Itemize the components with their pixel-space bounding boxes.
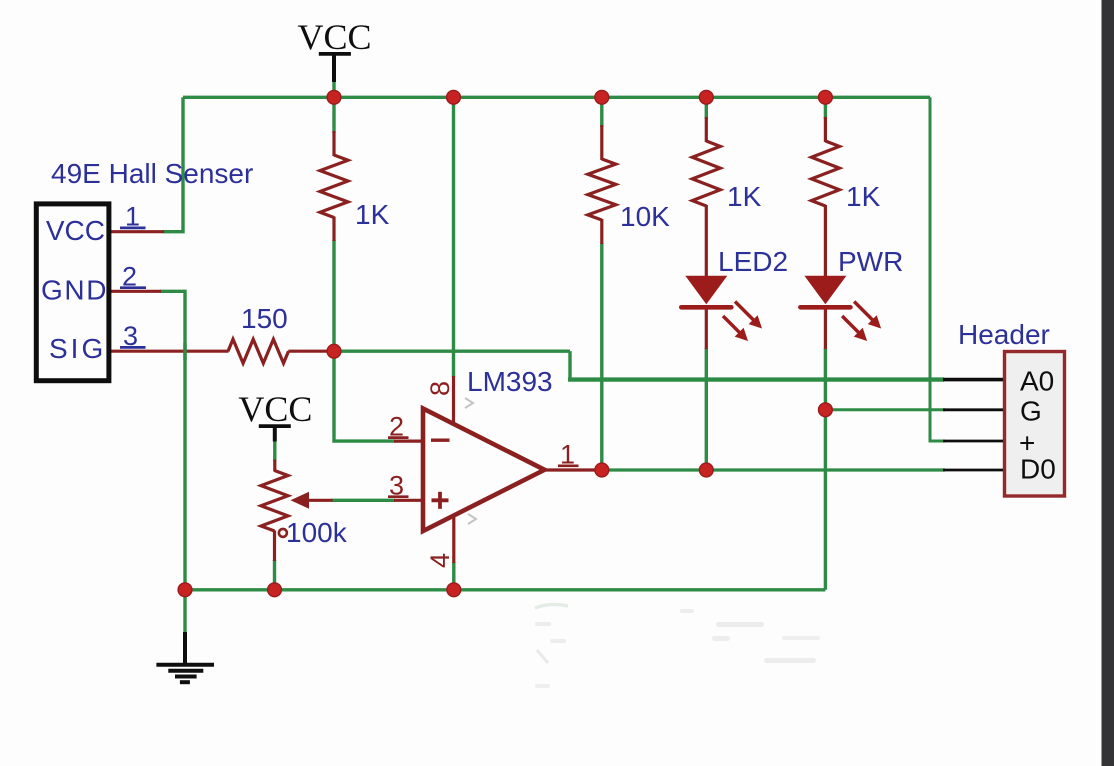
svg-text:10K: 10K bbox=[620, 201, 670, 232]
wire SIG node to op-amp pin2 bbox=[334, 351, 395, 441]
junction dot node output/LED2 bbox=[699, 463, 713, 477]
faint smudge 8 bbox=[782, 636, 820, 640]
wire pot wiper to op-amp pin3 bbox=[331, 499, 395, 502]
svg-text:Header: Header bbox=[958, 319, 1050, 350]
svg-text:4: 4 bbox=[425, 553, 455, 568]
lead op-amp pin3 bbox=[394, 499, 422, 502]
screen edge dark strip bbox=[1102, 0, 1114, 766]
hall pin number 3 bbox=[120, 321, 146, 351]
lead R4 to PWR anode bbox=[824, 205, 827, 277]
LED PWR cathode bar bbox=[800, 305, 850, 310]
svg-text:100k: 100k bbox=[286, 517, 348, 548]
gate mark bottom bbox=[468, 514, 476, 524]
header lead + bbox=[943, 440, 1003, 443]
faint smudge 5 bbox=[680, 609, 694, 613]
faint smudge 9 bbox=[764, 658, 816, 663]
wire output net to header D0 bbox=[602, 468, 945, 471]
junction dot node GND/PWR cathode bbox=[819, 403, 833, 417]
ground bar 1 bbox=[156, 663, 214, 667]
header lead D0 bbox=[943, 469, 1003, 472]
op-amp U1 plus sign bbox=[432, 492, 449, 509]
lead R4 top bbox=[824, 117, 827, 142]
wire op-amp pin4 to ground rail bbox=[452, 562, 455, 590]
lead R1 top bbox=[332, 131, 335, 156]
power symbol VCC top stem bbox=[332, 55, 336, 83]
wire VCC2 stem lower bbox=[273, 440, 276, 461]
resistor R6 150 body bbox=[228, 339, 289, 363]
resistor R4 1K body bbox=[811, 141, 839, 206]
svg-text:LM393: LM393 bbox=[467, 366, 553, 397]
lead op-amp pin2 bbox=[394, 440, 422, 443]
LED LED2 light arrow 2 bbox=[723, 316, 748, 341]
wire hall pin1 to VCC rail bbox=[163, 97, 183, 231]
svg-text:VCC: VCC bbox=[46, 215, 105, 246]
resistor R1 1K body bbox=[320, 155, 348, 218]
lead pot top bbox=[273, 460, 276, 472]
potentiometer R5 wiper arrow bbox=[291, 492, 310, 509]
wire PWR cathode node down to ground rail bbox=[824, 410, 827, 590]
wire R2 bottom to output net bbox=[600, 243, 603, 470]
lead R3 to LED2 anode bbox=[705, 205, 708, 277]
wire R1 bottom to SIG node bbox=[332, 240, 335, 351]
wire LED2 cathode to output net bbox=[705, 348, 708, 470]
wire VCC top rail bbox=[183, 96, 930, 99]
junction dot node GND/pot bbox=[268, 583, 282, 597]
svg-text:VCC: VCC bbox=[238, 389, 312, 429]
svg-text:LED2: LED2 bbox=[718, 246, 788, 277]
faint smudge 7 bbox=[712, 636, 730, 641]
hall pin number 1 bbox=[120, 202, 146, 232]
wire R4 top (rail to PWR 1K) bbox=[824, 97, 827, 119]
ground bar 4 bbox=[180, 680, 190, 684]
header JP1 box bbox=[1005, 352, 1065, 497]
lead hall pin1 bbox=[111, 230, 164, 233]
wire pot bottom to ground rail bbox=[273, 560, 276, 590]
LED LED2 triangle bbox=[685, 276, 727, 304]
wire hall pin2 to ground rail bbox=[160, 291, 185, 634]
svg-text:A0: A0 bbox=[1020, 366, 1054, 397]
wire A0 net (bold) bbox=[568, 377, 944, 381]
wire ground bottom rail bbox=[185, 588, 825, 591]
lead R3 top bbox=[705, 117, 708, 142]
faint smudge 3 bbox=[550, 639, 566, 643]
lead op-amp output pin1 bbox=[545, 468, 602, 471]
svg-text:150: 150 bbox=[241, 303, 288, 334]
svg-text:D0: D0 bbox=[1020, 454, 1056, 485]
wire SIG to A0 corner down bbox=[568, 351, 571, 379]
pin number 1 (op-amp output) bbox=[558, 440, 579, 470]
lead op-amp pin4 bbox=[452, 514, 455, 563]
hall sensor IC1 box bbox=[36, 204, 109, 381]
LED LED2 cathode bar bbox=[681, 305, 731, 310]
junction dot node output/R2 bbox=[595, 463, 609, 477]
junction dot node GND/pin4 bbox=[447, 583, 461, 597]
wire SIG node toward A0 (horizontal) bbox=[334, 350, 570, 353]
junction dot node GND/hall bbox=[178, 583, 192, 597]
potentiometer R5 terminal circle bbox=[279, 529, 287, 537]
power symbol VCC2 bar bbox=[259, 424, 291, 428]
ground bar 2 bbox=[168, 669, 203, 673]
wire hall pin2 vertical over SIG crossing bbox=[183, 343, 186, 360]
wire VCC1 stem lower bbox=[332, 81, 335, 98]
lead hall pin3 to R6 bbox=[111, 350, 229, 353]
junction dot node VCC/R2 bbox=[595, 90, 609, 104]
lead pot wiper shaft bbox=[308, 499, 333, 502]
lead R2 top bbox=[600, 125, 603, 160]
op-amp U1 minus sign bbox=[431, 439, 450, 442]
resistor R2 10K body bbox=[588, 159, 616, 220]
wire R2 top (rail to 10K) bbox=[600, 97, 603, 127]
faint smudge 4 bbox=[537, 650, 548, 663]
lead R1 bottom bbox=[332, 217, 335, 242]
LED PWR light arrow 2 bbox=[842, 316, 867, 341]
svg-text:VCC: VCC bbox=[297, 17, 371, 57]
wire VCC rail drop to header + bbox=[930, 97, 945, 441]
faint smudge 2 bbox=[535, 622, 551, 626]
faint smudge 10 bbox=[535, 684, 550, 688]
pin number 3 (op-amp) bbox=[388, 471, 409, 501]
lead hall pin2 bbox=[111, 290, 161, 293]
lead R2 bottom bbox=[600, 219, 603, 244]
lead R6 to SIG node bbox=[288, 350, 334, 353]
power symbol VCC2 stem bbox=[273, 427, 277, 442]
svg-text:SIG: SIG bbox=[49, 333, 106, 364]
potentiometer R5 body bbox=[261, 471, 288, 532]
LED PWR triangle bbox=[804, 276, 846, 304]
LED LED2 light arrow 1 bbox=[735, 302, 762, 329]
svg-text:GND: GND bbox=[41, 275, 108, 306]
junction dot node VCC/R4 bbox=[819, 90, 833, 104]
ground bar 3 bbox=[175, 675, 197, 679]
wire G net to header bbox=[825, 408, 945, 411]
lead op-amp pin8 bbox=[452, 376, 455, 423]
wire op-amp pin8 to VCC rail bbox=[452, 97, 455, 377]
wire PWR cathode lower bbox=[824, 348, 827, 410]
lead PWR cathode bbox=[824, 308, 827, 349]
wire R3 top (rail to LED2 1K) bbox=[705, 97, 708, 119]
resistor R3 1K body bbox=[692, 141, 720, 206]
hall pin number 2 bbox=[120, 262, 146, 292]
svg-text:G: G bbox=[1020, 396, 1042, 427]
svg-text:1K: 1K bbox=[846, 181, 881, 212]
lead pot bottom bbox=[273, 531, 276, 562]
junction dot node VCC/pin8 bbox=[447, 90, 461, 104]
svg-text:8: 8 bbox=[425, 381, 455, 396]
faint smudge 1 bbox=[535, 604, 568, 608]
gate mark top bbox=[465, 398, 473, 408]
wire R1 top (rail to R1) bbox=[332, 97, 335, 133]
header lead G bbox=[943, 408, 1003, 411]
svg-text:49E Hall Senser: 49E Hall Senser bbox=[51, 158, 253, 189]
LED PWR light arrow 1 bbox=[854, 302, 881, 329]
pin number 2 (op-amp) bbox=[388, 412, 409, 442]
power symbol VCC top bar bbox=[319, 52, 351, 56]
lead LED2 cathode bbox=[705, 308, 708, 349]
faint smudge 6 bbox=[716, 622, 764, 627]
ground stem bbox=[183, 632, 187, 664]
junction dot node VCC/R1 bbox=[327, 90, 341, 104]
svg-text:PWR: PWR bbox=[838, 246, 903, 277]
junction dot node SIG junction bbox=[327, 344, 341, 358]
svg-text:1K: 1K bbox=[727, 181, 762, 212]
junction dot node VCC/R3 bbox=[699, 90, 713, 104]
header lead A0 bbox=[943, 378, 1003, 382]
op-amp U1 LM393 triangle bbox=[423, 409, 545, 532]
svg-text:1K: 1K bbox=[355, 199, 390, 230]
